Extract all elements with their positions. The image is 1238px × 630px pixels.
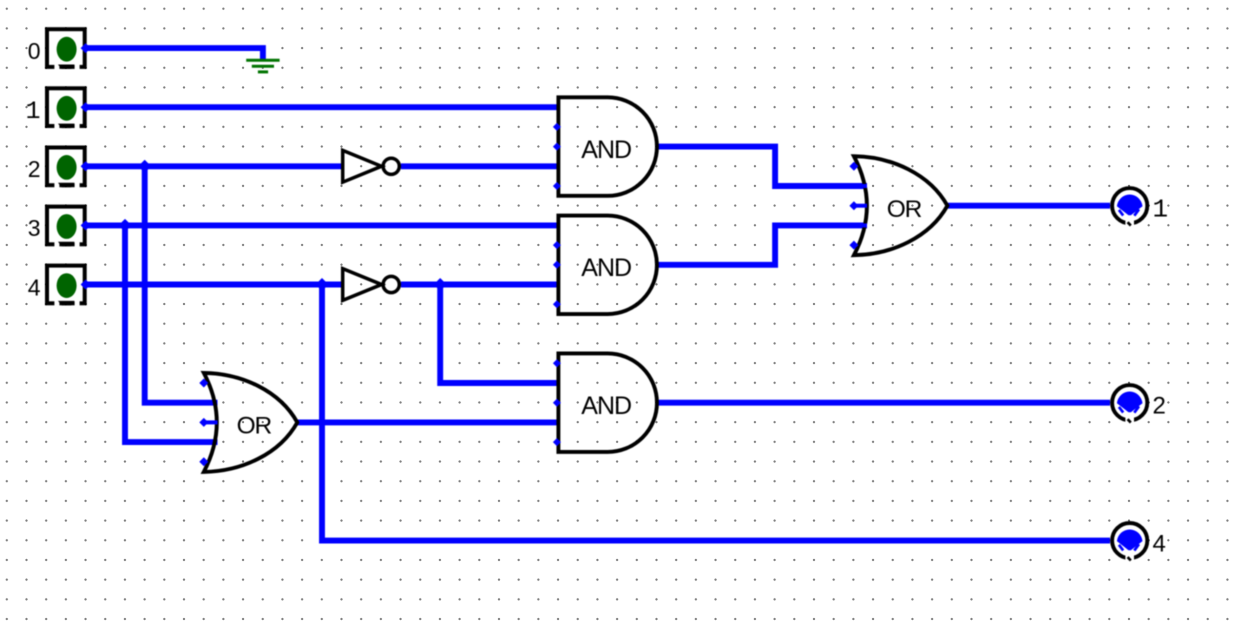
label pin 3 — [28, 215, 41, 241]
label led 1 — [1153, 195, 1169, 225]
unconnected input stub AND2 row 15 — [553, 300, 561, 308]
inverter NOT1 — [343, 150, 400, 182]
unconnected input stub AND3 row 20 — [553, 399, 561, 407]
pin 4 output port — [81, 280, 91, 290]
svg-text:OR: OR — [887, 196, 922, 223]
ground — [246, 59, 279, 72]
or-gate OR1 — [854, 156, 948, 255]
unconnected input stub AND1 row 6 — [553, 123, 561, 131]
input pin 3 — [47, 207, 85, 248]
wire AND2 output to OR1 input — [657, 225, 867, 264]
unconnected input stub AND2 row 13 — [553, 261, 561, 269]
wire pin1 to AND1 input — [86, 104, 559, 110]
svg-text:OR: OR — [237, 413, 272, 440]
svg-text:4: 4 — [28, 274, 41, 300]
wire pin2 to NOT1 input — [86, 163, 342, 169]
junction pin2/OR2 branch — [138, 160, 151, 173]
unconnected input stub AND3 row 18 — [553, 359, 561, 367]
wire pin4 to NOT2 input — [86, 282, 342, 288]
pin 0 output port — [81, 43, 91, 53]
svg-text:4: 4 — [1153, 531, 1166, 558]
OR2 middle input stub — [199, 418, 217, 427]
wire OR2 output to AND3 input — [297, 419, 558, 425]
and-gate AND2 — [558, 216, 657, 314]
label pin 4 — [28, 274, 41, 300]
svg-text:0: 0 — [28, 38, 41, 64]
svg-text:2: 2 — [1153, 393, 1166, 420]
pin 2 output port — [81, 161, 91, 171]
led output 2 — [1112, 385, 1147, 425]
svg-text:2: 2 — [28, 156, 41, 182]
input pin 1 — [47, 88, 85, 129]
wire AND1 output to OR1 input — [657, 147, 867, 186]
junction pin4/LED4 branch — [316, 278, 329, 291]
inverter NOT2 — [343, 269, 400, 301]
pin 1 output port — [81, 102, 91, 112]
svg-text:AND: AND — [581, 392, 631, 420]
wire pin2 branch to OR2 input — [145, 166, 218, 402]
unconnected input stub AND3 row 22 — [553, 438, 561, 446]
wire pin4 branch to LED4 — [322, 285, 1110, 541]
svg-text:3: 3 — [28, 215, 41, 241]
label pin 1 — [25, 97, 40, 126]
OR1 input stub row 12 — [849, 241, 858, 250]
OR2 input stub row 23 — [199, 457, 208, 466]
svg-text:1: 1 — [25, 97, 40, 126]
svg-text:1: 1 — [1153, 195, 1169, 225]
wire NOT2 branch to AND3 input — [440, 285, 558, 384]
label pin 0 — [28, 38, 41, 64]
label led 4 — [1153, 531, 1166, 558]
wire NOT2 output to AND2 input — [401, 282, 559, 288]
junction pin3/OR2 branch — [119, 219, 132, 232]
wire pin0 to ground — [86, 48, 263, 59]
wire OR1 output to LED1 — [947, 203, 1110, 209]
wire AND3 output to LED2 — [657, 400, 1110, 406]
unconnected input stub AND1 row 9 — [553, 182, 561, 190]
svg-text:AND: AND — [581, 136, 631, 164]
wire pin3 branch to OR2 input — [125, 225, 218, 442]
pin 3 output port — [81, 220, 91, 230]
label led 2 — [1153, 393, 1166, 420]
svg-text:AND: AND — [581, 254, 631, 282]
label pin 2 — [28, 156, 41, 182]
and-gate AND3 — [558, 353, 657, 452]
input pin 0 — [47, 29, 85, 70]
led output 1 — [1112, 188, 1147, 228]
OR1 middle input stub — [849, 201, 867, 210]
OR1 input stub row 8 — [849, 162, 858, 171]
OR2 input stub row 19 — [199, 379, 208, 388]
junction NOT2 output/AND3 branch — [434, 278, 447, 291]
unconnected input stub AND1 row 7 — [553, 143, 561, 151]
OR1 input leg row 9 — [854, 184, 867, 188]
and-gate AND1 — [558, 97, 657, 196]
wire pin3 to AND2 input — [86, 222, 559, 228]
or-gate OR2 — [204, 373, 297, 472]
led output 4 — [1112, 523, 1147, 563]
wire NOT1 output to AND1 input — [401, 163, 559, 169]
OR1 input leg row 11 — [854, 223, 867, 227]
unconnected input stub AND2 row 12 — [553, 241, 561, 249]
input pin 2 — [47, 148, 85, 189]
input pin 4 — [47, 266, 85, 307]
